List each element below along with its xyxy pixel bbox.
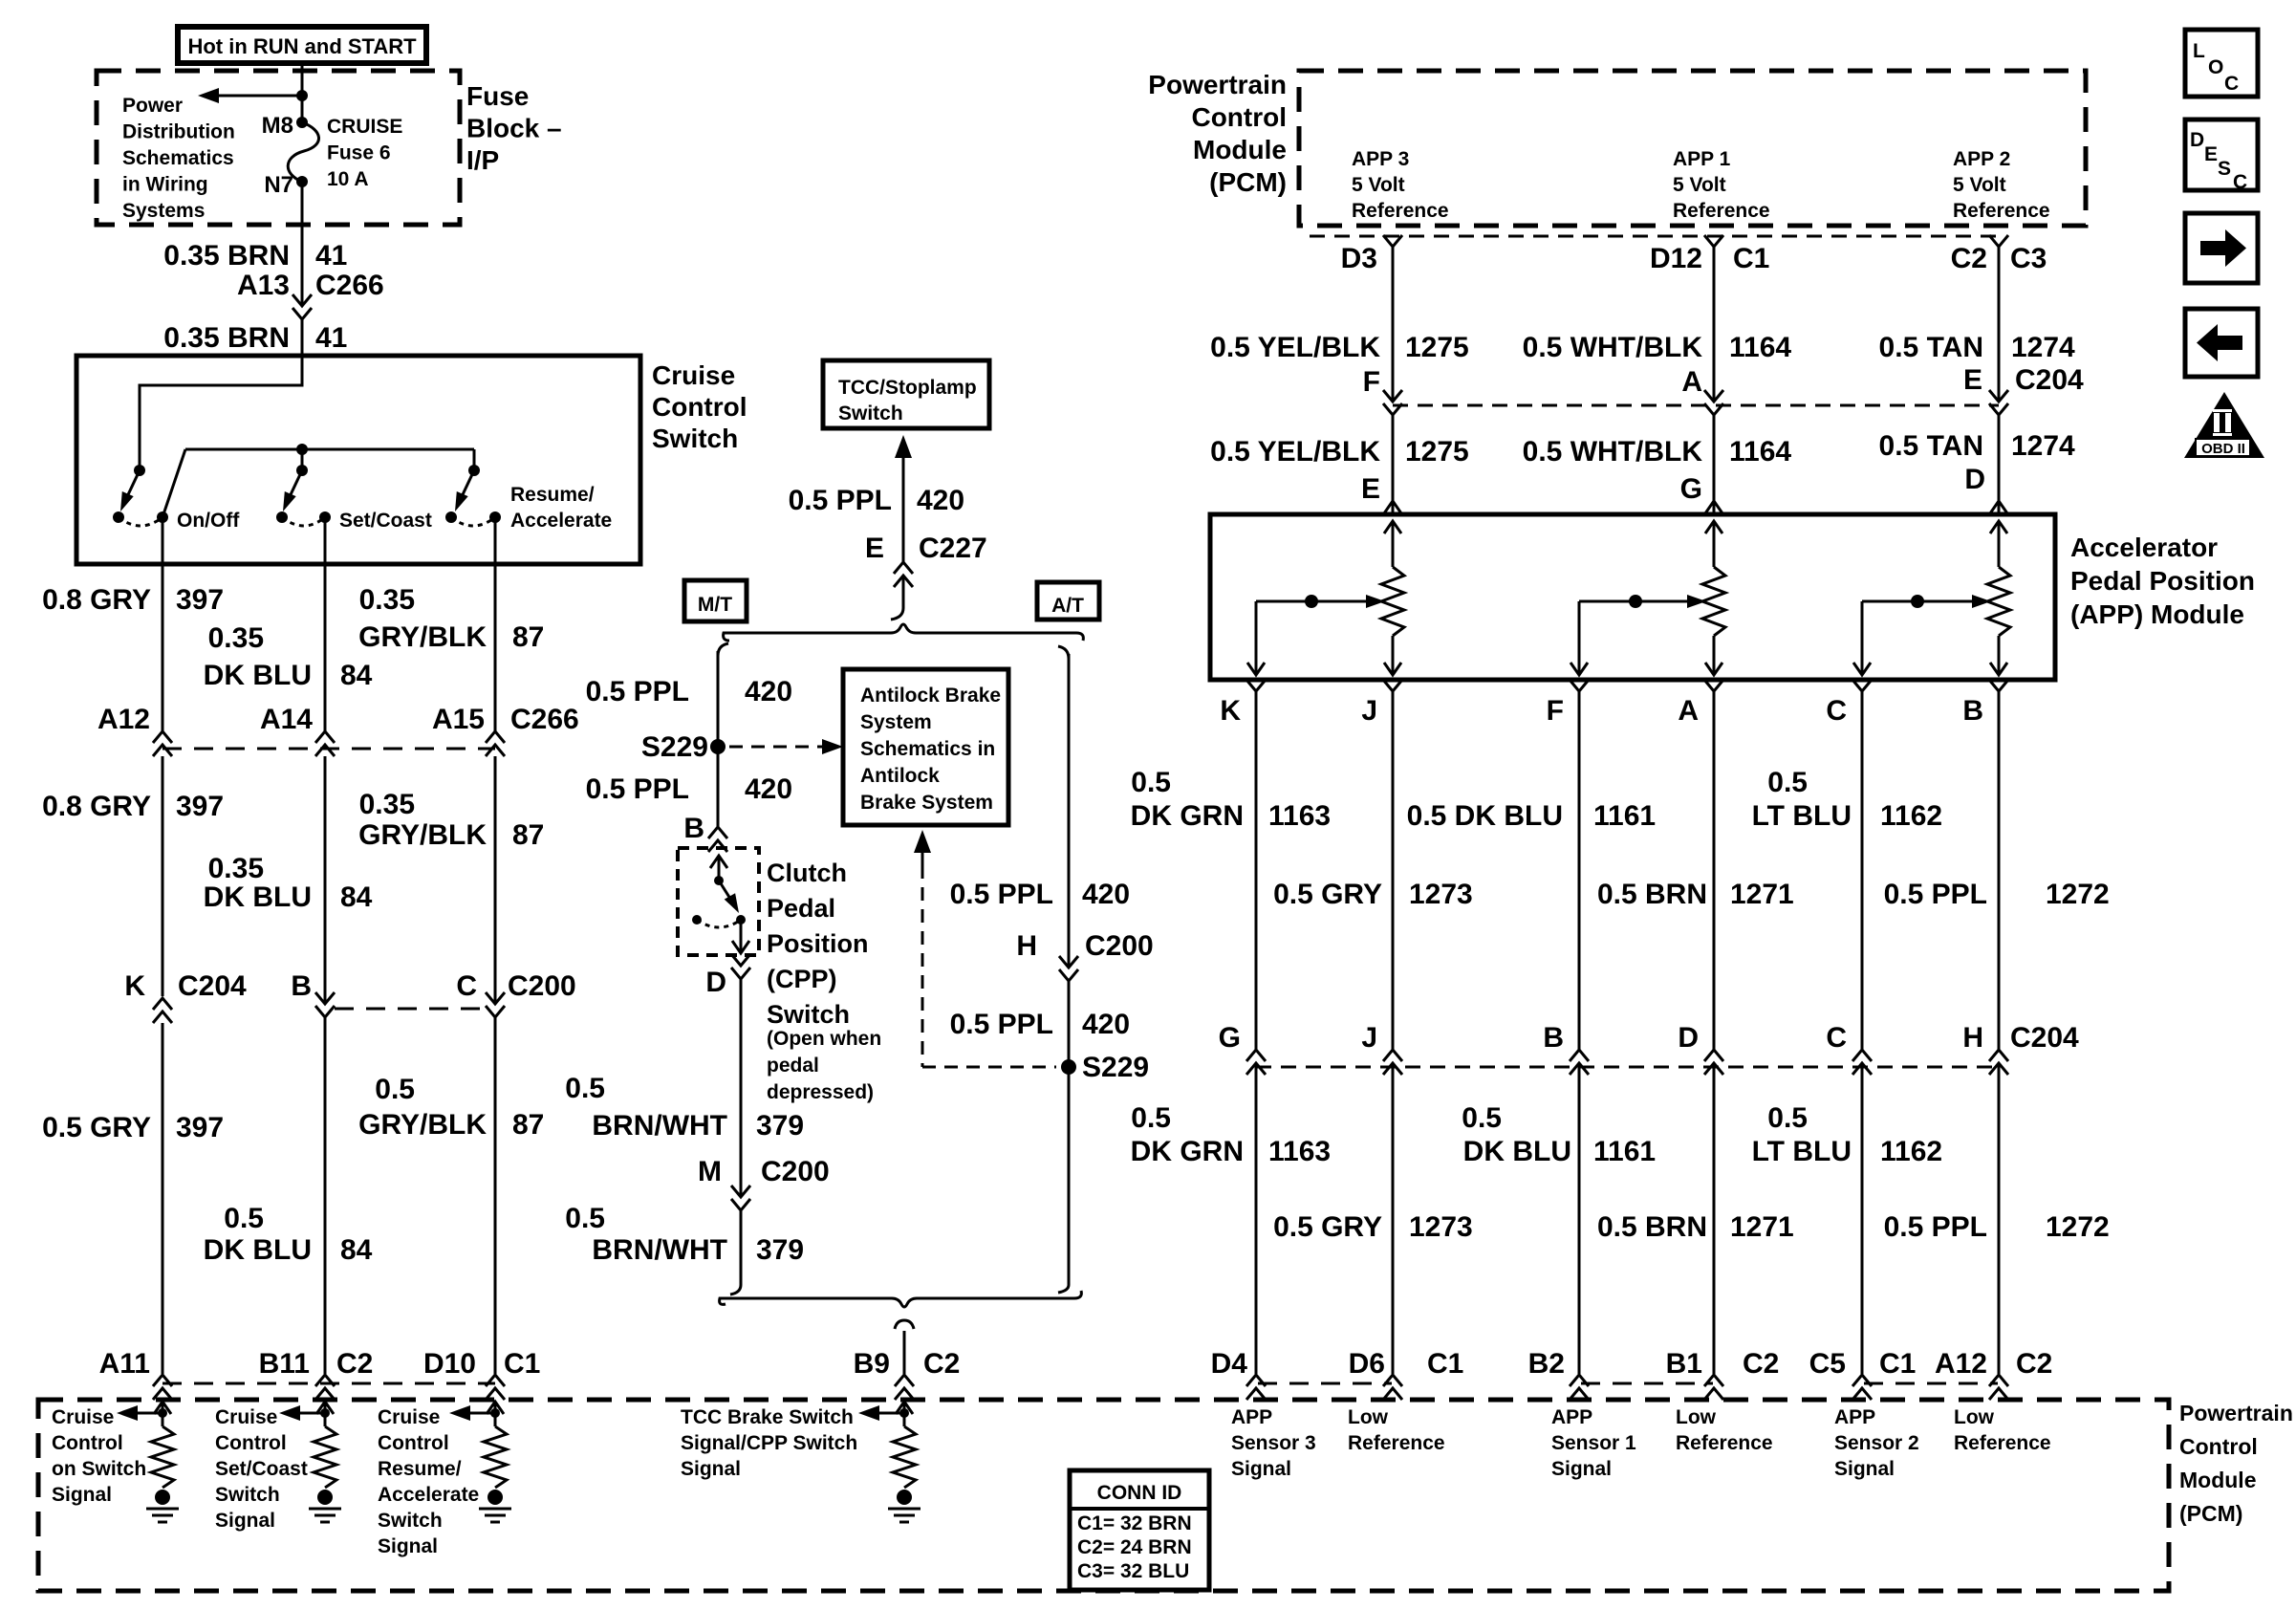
svg-text:J: J xyxy=(1361,695,1377,727)
wire: set/coast signal 0.35 DK BLU 84 xyxy=(324,517,327,731)
svg-text:1275: 1275 xyxy=(1405,332,1469,363)
svg-text:C2: C2 xyxy=(923,1348,960,1380)
svg-text:B2: B2 xyxy=(1528,1348,1565,1380)
svg-text:Signal: Signal xyxy=(1231,1458,1291,1480)
svg-text:Block –: Block – xyxy=(466,114,562,143)
svg-text:1164: 1164 xyxy=(1729,332,1791,363)
svg-text:DK BLU: DK BLU xyxy=(204,1234,312,1266)
svg-text:B: B xyxy=(291,970,312,1002)
svg-text:A12: A12 xyxy=(97,704,150,735)
wire: 0.35 BRN 41 to cruise switch xyxy=(301,319,304,385)
wire: tap to power distribution xyxy=(218,95,302,98)
icon: next page arrow box xyxy=(2185,213,2258,283)
svg-text:APP: APP xyxy=(1551,1406,1592,1428)
svg-text:D: D xyxy=(2190,129,2204,151)
svg-text:depressed): depressed) xyxy=(767,1081,874,1103)
PCM connector interface line xyxy=(1310,235,1999,238)
svg-text:0.5 DK BLU: 0.5 DK BLU xyxy=(1407,800,1563,832)
svg-text:Signal: Signal xyxy=(681,1458,741,1480)
svg-text:K: K xyxy=(1220,695,1241,727)
wire: On/Off output to bus xyxy=(162,449,185,517)
svg-text:F: F xyxy=(1363,366,1380,398)
svg-text:87: 87 xyxy=(512,621,544,653)
svg-text:C200: C200 xyxy=(1085,930,1154,962)
svg-text:D12: D12 xyxy=(1650,243,1702,274)
svg-text:1163: 1163 xyxy=(1268,800,1331,832)
potentiometer APP sensor 2 xyxy=(1990,521,2007,533)
svg-text:Sensor 1: Sensor 1 xyxy=(1551,1432,1636,1454)
svg-text:87: 87 xyxy=(512,819,544,851)
svg-text:0.5 BRN: 0.5 BRN xyxy=(1597,879,1707,910)
svg-text:Powertrain: Powertrain xyxy=(2179,1401,2293,1425)
svg-text:Control: Control xyxy=(652,392,747,422)
svg-text:Pedal Position: Pedal Position xyxy=(2070,566,2255,596)
svg-text:On/Off: On/Off xyxy=(177,510,240,532)
svg-text:Brake System: Brake System xyxy=(860,792,993,814)
svg-text:D10: D10 xyxy=(423,1348,476,1380)
PCM input: cruise control resume/accelerate switch signal xyxy=(487,1402,504,1414)
svg-text:BRN/WHT: BRN/WHT xyxy=(592,1234,727,1266)
svg-text:0.5 TAN: 0.5 TAN xyxy=(1879,332,1983,363)
svg-text:Antilock Brake: Antilock Brake xyxy=(860,685,1001,707)
svg-text:1271: 1271 xyxy=(1730,879,1794,910)
svg-text:A11: A11 xyxy=(99,1348,150,1380)
svg-text:Switch: Switch xyxy=(652,424,738,453)
svg-text:Antilock: Antilock xyxy=(860,765,940,787)
svg-text:0.5: 0.5 xyxy=(1131,1102,1171,1134)
svg-text:D: D xyxy=(1678,1022,1699,1054)
svg-text:(PCM): (PCM) xyxy=(2179,1501,2242,1526)
svg-text:1162: 1162 xyxy=(1880,800,1942,832)
M/T option box xyxy=(684,580,747,621)
svg-text:C: C xyxy=(2224,73,2239,95)
svg-text:A/T: A/T xyxy=(1051,595,1084,617)
icon: LOC link box xyxy=(2185,30,2258,97)
svg-text:GRY/BLK: GRY/BLK xyxy=(358,1109,487,1141)
svg-text:0.5 GRY: 0.5 GRY xyxy=(42,1112,151,1143)
svg-text:0.5 PPL: 0.5 PPL xyxy=(789,485,892,516)
svg-text:Signal: Signal xyxy=(52,1484,112,1506)
svg-text:C200: C200 xyxy=(508,970,576,1002)
svg-text:Set/Coast: Set/Coast xyxy=(339,510,432,532)
svg-text:0.5 GRY: 0.5 GRY xyxy=(1273,879,1382,910)
svg-text:B1: B1 xyxy=(1666,1348,1702,1380)
switch S1 On/Off xyxy=(134,465,145,476)
svg-text:C: C xyxy=(456,970,477,1002)
svg-text:0.5: 0.5 xyxy=(375,1074,415,1105)
svg-text:C3: C3 xyxy=(2010,243,2047,274)
svg-text:Switch: Switch xyxy=(215,1484,280,1506)
svg-text:5 Volt: 5 Volt xyxy=(1352,174,1405,196)
svg-text:Cruise: Cruise xyxy=(215,1406,277,1428)
svg-text:D4: D4 xyxy=(1211,1348,1248,1380)
svg-text:Cruise: Cruise xyxy=(52,1406,114,1428)
svg-text:0.8 GRY: 0.8 GRY xyxy=(42,584,151,616)
svg-text:87: 87 xyxy=(512,1109,544,1141)
svg-text:Fuse 6: Fuse 6 xyxy=(327,142,391,164)
svg-text:DK BLU: DK BLU xyxy=(204,660,312,691)
wire: feed inside switch xyxy=(140,356,302,470)
svg-text:Reference: Reference xyxy=(1954,1432,2051,1454)
svg-text:Reference: Reference xyxy=(1673,200,1770,222)
wire: cruise on signal 0.8 GRY 397 xyxy=(162,517,164,731)
wire: A/T branch 0.5 PPL 420 xyxy=(1058,646,1069,659)
svg-text:420: 420 xyxy=(1082,879,1130,910)
svg-text:C2: C2 xyxy=(336,1348,373,1380)
svg-text:APP 3: APP 3 xyxy=(1352,148,1409,170)
svg-text:APP 2: APP 2 xyxy=(1953,148,2010,170)
svg-text:397: 397 xyxy=(176,1112,224,1143)
power feed label box: Hot in RUN and START xyxy=(178,27,426,63)
svg-text:DK GRN: DK GRN xyxy=(1131,1136,1244,1167)
svg-text:1271: 1271 xyxy=(1730,1211,1794,1243)
svg-text:Schematics: Schematics xyxy=(122,147,234,169)
svg-text:379: 379 xyxy=(756,1234,804,1266)
PCM input: cruise control on switch signal xyxy=(154,1402,171,1414)
svg-text:APP 1: APP 1 xyxy=(1673,148,1731,170)
svg-text:Distribution: Distribution xyxy=(122,121,235,143)
fuse F6: CRUISE Fuse 6 10 A xyxy=(296,117,308,128)
connector ID legend box xyxy=(1070,1470,1209,1590)
svg-text:1164: 1164 xyxy=(1729,436,1791,468)
svg-text:D: D xyxy=(705,967,726,998)
svg-text:Sensor 2: Sensor 2 xyxy=(1834,1432,1919,1454)
svg-text:(PCM): (PCM) xyxy=(1209,167,1287,197)
svg-text:Accelerate: Accelerate xyxy=(510,510,612,532)
svg-text:0.5 PPL: 0.5 PPL xyxy=(586,773,689,805)
svg-text:A: A xyxy=(1681,366,1702,398)
svg-text:0.35: 0.35 xyxy=(359,584,415,616)
svg-text:Control: Control xyxy=(2179,1434,2258,1459)
svg-text:C266: C266 xyxy=(315,270,384,301)
switch S2 Set/Coast xyxy=(301,449,304,470)
svg-text:Switch: Switch xyxy=(767,1000,850,1029)
svg-text:E: E xyxy=(1361,473,1380,505)
svg-text:(APP) Module: (APP) Module xyxy=(2070,599,2244,629)
splice S229 (M/T) xyxy=(710,739,726,754)
switch S3 Resume/Accelerate xyxy=(473,449,476,470)
svg-text:0.5: 0.5 xyxy=(224,1203,264,1234)
svg-text:1161: 1161 xyxy=(1593,1136,1656,1167)
svg-text:Module: Module xyxy=(1193,135,1287,164)
wire: battery feed into fuse block xyxy=(301,63,304,122)
TCC/Stoplamp Switch box xyxy=(823,360,989,428)
icon: OBD II triangle xyxy=(2184,392,2264,458)
dashed reference arrow to ABS box xyxy=(729,746,822,749)
svg-text:10 A: 10 A xyxy=(327,168,369,190)
svg-text:Control: Control xyxy=(215,1432,287,1454)
svg-text:Control: Control xyxy=(378,1432,449,1454)
svg-text:1272: 1272 xyxy=(2046,879,2110,910)
svg-text:N7: N7 xyxy=(264,172,293,198)
svg-text:Powertrain: Powertrain xyxy=(1148,70,1287,99)
svg-text:0.35 BRN: 0.35 BRN xyxy=(163,322,290,354)
A/T option box xyxy=(1037,582,1099,620)
svg-text:DK BLU: DK BLU xyxy=(204,881,312,913)
wire: fuse output down xyxy=(301,182,304,304)
svg-text:M8: M8 xyxy=(262,113,293,139)
svg-text:C1: C1 xyxy=(504,1348,540,1380)
svg-text:DK GRN: DK GRN xyxy=(1131,800,1244,832)
PCM input: cruise control set/coast switch signal xyxy=(316,1402,334,1414)
svg-text:C: C xyxy=(1826,695,1847,727)
svg-text:C2: C2 xyxy=(2016,1348,2052,1380)
svg-text:A15: A15 xyxy=(432,704,485,735)
svg-text:LT BLU: LT BLU xyxy=(1752,1136,1852,1167)
svg-text:Accelerator: Accelerator xyxy=(2070,533,2218,562)
svg-text:Cruise: Cruise xyxy=(378,1406,440,1428)
svg-text:Schematics in: Schematics in xyxy=(860,738,995,760)
svg-text:TCC Brake Switch: TCC Brake Switch xyxy=(681,1406,854,1428)
svg-text:0.5 TAN: 0.5 TAN xyxy=(1879,430,1983,462)
svg-text:OBD II: OBD II xyxy=(2201,441,2245,457)
svg-text:420: 420 xyxy=(1082,1009,1130,1040)
PCM input: TCC brake switch signal/CPP switch signal xyxy=(896,1402,913,1414)
svg-text:C1: C1 xyxy=(1879,1348,1916,1380)
svg-text:L: L xyxy=(2193,40,2205,62)
svg-text:5 Volt: 5 Volt xyxy=(1673,174,1726,196)
svg-text:1274: 1274 xyxy=(2011,332,2075,363)
svg-text:1275: 1275 xyxy=(1405,436,1469,468)
svg-text:C5: C5 xyxy=(1809,1348,1846,1380)
svg-text:M: M xyxy=(698,1156,722,1187)
svg-text:Power: Power xyxy=(122,95,183,117)
svg-text:0.5 PPL: 0.5 PPL xyxy=(1884,1211,1987,1243)
svg-text:C2: C2 xyxy=(1743,1348,1779,1380)
svg-text:O: O xyxy=(2208,56,2223,78)
svg-text:397: 397 xyxy=(176,584,224,616)
svg-text:Fuse: Fuse xyxy=(466,81,529,111)
svg-text:H: H xyxy=(1016,930,1037,962)
svg-text:S229: S229 xyxy=(641,731,708,763)
svg-text:1163: 1163 xyxy=(1268,1136,1331,1167)
svg-text:1273: 1273 xyxy=(1409,1211,1473,1243)
svg-text:Reference: Reference xyxy=(1352,200,1449,222)
svg-text:84: 84 xyxy=(340,1234,373,1266)
svg-text:C: C xyxy=(1826,1022,1847,1054)
powertrain control module dashed box (bottom) xyxy=(38,1400,2169,1591)
svg-text:K: K xyxy=(124,970,145,1002)
svg-text:Position: Position xyxy=(767,929,869,958)
svg-text:0.5: 0.5 xyxy=(565,1203,605,1234)
svg-text:D: D xyxy=(1964,464,1985,495)
svg-text:0.5 GRY: 0.5 GRY xyxy=(1273,1211,1382,1243)
svg-text:420: 420 xyxy=(745,676,792,707)
svg-text:E: E xyxy=(2204,143,2218,165)
svg-text:C204: C204 xyxy=(2010,1022,2079,1054)
svg-text:CONN ID: CONN ID xyxy=(1097,1482,1182,1504)
svg-text:B9: B9 xyxy=(854,1348,890,1380)
svg-text:0.35: 0.35 xyxy=(208,622,264,654)
svg-text:B: B xyxy=(683,813,704,844)
potentiometer APP sensor 3 xyxy=(1384,521,1401,533)
svg-text:41: 41 xyxy=(315,240,347,272)
svg-text:Signal: Signal xyxy=(378,1535,438,1557)
svg-text:379: 379 xyxy=(756,1110,804,1142)
bus wire in switch xyxy=(185,448,474,451)
svg-text:Sensor 3: Sensor 3 xyxy=(1231,1432,1316,1454)
svg-text:Control: Control xyxy=(52,1432,123,1454)
svg-text:Module: Module xyxy=(2179,1468,2257,1492)
svg-text:Reference: Reference xyxy=(1348,1432,1445,1454)
svg-text:System: System xyxy=(860,711,932,733)
svg-text:1162: 1162 xyxy=(1880,1136,1942,1167)
svg-text:0.5 WHT/BLK: 0.5 WHT/BLK xyxy=(1523,436,1703,468)
svg-text:41: 41 xyxy=(315,322,347,354)
svg-text:84: 84 xyxy=(340,881,373,913)
svg-text:DK BLU: DK BLU xyxy=(1463,1136,1571,1167)
svg-text:0.8 GRY: 0.8 GRY xyxy=(42,791,151,822)
svg-text:D6: D6 xyxy=(1349,1348,1385,1380)
svg-text:Signal: Signal xyxy=(1834,1458,1895,1480)
svg-text:A: A xyxy=(1678,695,1699,727)
antilock brake system reference box xyxy=(843,669,1008,825)
svg-text:Signal: Signal xyxy=(1551,1458,1612,1480)
svg-text:F: F xyxy=(1547,695,1564,727)
svg-text:C227: C227 xyxy=(919,533,987,564)
svg-text:GRY/BLK: GRY/BLK xyxy=(358,621,487,653)
APP module bottom pins K J F A C B xyxy=(1246,680,1266,691)
svg-text:C2: C2 xyxy=(1951,243,1987,274)
svg-text:Reference: Reference xyxy=(1676,1432,1773,1454)
splice S229 (A/T) xyxy=(1061,1059,1076,1075)
svg-text:Switch: Switch xyxy=(378,1510,443,1532)
svg-text:Signal/CPP Switch: Signal/CPP Switch xyxy=(681,1432,857,1454)
svg-text:B: B xyxy=(1543,1022,1564,1054)
svg-text:Signal: Signal xyxy=(215,1510,275,1532)
powertrain control module dashed box (top) xyxy=(1299,71,2086,226)
svg-text:TCC/Stoplamp: TCC/Stoplamp xyxy=(838,377,977,399)
svg-text:Accelerate: Accelerate xyxy=(378,1484,479,1506)
svg-text:C2= 24 BRN: C2= 24 BRN xyxy=(1077,1536,1192,1558)
fuse block I/P dashed box xyxy=(97,71,460,225)
svg-text:0.5: 0.5 xyxy=(1767,767,1808,798)
svg-text:0.5 PPL: 0.5 PPL xyxy=(950,879,1053,910)
transmission split brace (M/T left, A/T right) xyxy=(724,624,1084,641)
svg-text:84: 84 xyxy=(340,660,373,691)
svg-text:0.5 WHT/BLK: 0.5 WHT/BLK xyxy=(1523,332,1703,363)
svg-text:A12: A12 xyxy=(1935,1348,1987,1380)
svg-text:H: H xyxy=(1962,1022,1983,1054)
svg-text:B: B xyxy=(1962,695,1983,727)
svg-text:M/T: M/T xyxy=(698,594,732,616)
svg-text:1273: 1273 xyxy=(1409,879,1473,910)
wire: M/T branch 0.5 PPL 420 xyxy=(718,643,728,656)
svg-text:C204: C204 xyxy=(2015,364,2084,396)
svg-text:CRUISE: CRUISE xyxy=(327,116,402,138)
svg-text:0.35 BRN: 0.35 BRN xyxy=(163,240,290,272)
cruise control switch box xyxy=(76,356,640,564)
svg-text:0.5: 0.5 xyxy=(1767,1102,1808,1134)
clutch pedal position switch dashed box xyxy=(678,848,759,955)
svg-text:(Open when: (Open when xyxy=(767,1028,881,1050)
CPP switch contacts xyxy=(710,856,727,868)
accelerator pedal position module box xyxy=(1210,514,2055,680)
svg-text:420: 420 xyxy=(917,485,964,516)
svg-text:S: S xyxy=(2218,158,2231,180)
svg-text:C1= 32 BRN: C1= 32 BRN xyxy=(1077,1512,1192,1534)
svg-text:0.5: 0.5 xyxy=(565,1073,605,1104)
svg-text:Control: Control xyxy=(1191,102,1287,132)
svg-text:1274: 1274 xyxy=(2011,430,2075,462)
svg-text:S229: S229 xyxy=(1082,1052,1149,1083)
svg-text:J: J xyxy=(1361,1022,1377,1054)
svg-text:Resume/: Resume/ xyxy=(510,484,595,506)
svg-text:LT BLU: LT BLU xyxy=(1752,800,1852,832)
transmission merge brace xyxy=(730,1285,741,1295)
svg-text:0.5 BRN: 0.5 BRN xyxy=(1597,1211,1707,1243)
svg-text:Pedal: Pedal xyxy=(767,894,835,923)
svg-text:I/P: I/P xyxy=(466,145,499,175)
svg-text:C1: C1 xyxy=(1427,1348,1463,1380)
svg-text:Set/Coast: Set/Coast xyxy=(215,1458,308,1480)
svg-text:on Switch: on Switch xyxy=(52,1458,146,1480)
svg-text:Clutch: Clutch xyxy=(767,859,847,887)
svg-text:Cruise: Cruise xyxy=(652,360,735,390)
svg-text:B11: B11 xyxy=(259,1348,310,1380)
svg-text:C266: C266 xyxy=(510,704,579,735)
svg-text:BRN/WHT: BRN/WHT xyxy=(592,1110,727,1142)
svg-text:C3= 32 BLU: C3= 32 BLU xyxy=(1077,1560,1189,1582)
svg-text:0.5: 0.5 xyxy=(1462,1102,1502,1134)
svg-text:GRY/BLK: GRY/BLK xyxy=(358,819,487,851)
wire: resume signal 0.35 GRY/BLK 87 xyxy=(494,517,497,731)
svg-text:Low: Low xyxy=(1348,1406,1389,1428)
svg-text:A14: A14 xyxy=(260,704,313,735)
svg-text:APP: APP xyxy=(1834,1406,1875,1428)
svg-text:in Wiring: in Wiring xyxy=(122,174,208,196)
svg-text:0.5 PPL: 0.5 PPL xyxy=(950,1009,1053,1040)
svg-text:APP: APP xyxy=(1231,1406,1272,1428)
svg-text:pedal: pedal xyxy=(767,1055,819,1077)
dashed reference arrow from S229 up into ABS box xyxy=(914,830,931,853)
svg-text:397: 397 xyxy=(176,791,224,822)
svg-text:Switch: Switch xyxy=(838,402,903,424)
wire: 0.5 PPL 420 up to TCC/Stoplamp switch xyxy=(895,435,912,458)
svg-text:1161: 1161 xyxy=(1593,800,1656,832)
svg-text:Hot in RUN and START: Hot in RUN and START xyxy=(187,34,417,58)
svg-text:0.5 PPL: 0.5 PPL xyxy=(586,676,689,707)
svg-text:E: E xyxy=(1963,364,1982,396)
icon: previous page arrow box xyxy=(2185,309,2258,377)
svg-text:Systems: Systems xyxy=(122,200,205,222)
connector C2 pin B9 (TCC brake switch signal) xyxy=(895,1320,914,1329)
svg-text:C204: C204 xyxy=(178,970,247,1002)
svg-text:E: E xyxy=(865,533,884,564)
icon: DESC link box xyxy=(2185,120,2258,190)
svg-text:Low: Low xyxy=(1676,1406,1717,1428)
svg-text:0.5 PPL: 0.5 PPL xyxy=(1884,879,1987,910)
svg-text:0.5: 0.5 xyxy=(1131,767,1171,798)
svg-text:1272: 1272 xyxy=(2046,1211,2110,1243)
svg-text:0.35: 0.35 xyxy=(208,853,264,884)
svg-text:C200: C200 xyxy=(761,1156,830,1187)
svg-text:Resume/: Resume/ xyxy=(378,1458,462,1480)
svg-text:D3: D3 xyxy=(1341,243,1377,274)
node: fuse block feed junction xyxy=(296,90,308,101)
svg-text:G: G xyxy=(1219,1022,1241,1054)
svg-text:Reference: Reference xyxy=(1953,200,2050,222)
svg-text:C: C xyxy=(2233,171,2247,193)
svg-text:5 Volt: 5 Volt xyxy=(1953,174,2006,196)
svg-text:C1: C1 xyxy=(1733,243,1769,274)
svg-text:0.35: 0.35 xyxy=(359,789,415,820)
svg-text:0.5 YEL/BLK: 0.5 YEL/BLK xyxy=(1210,332,1380,363)
svg-text:0.5 YEL/BLK: 0.5 YEL/BLK xyxy=(1210,436,1380,468)
svg-text:G: G xyxy=(1680,473,1702,505)
svg-text:A13: A13 xyxy=(237,270,290,301)
svg-text:(CPP): (CPP) xyxy=(767,965,837,993)
